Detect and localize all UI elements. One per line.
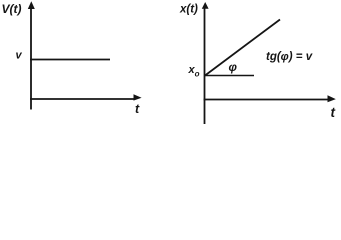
svg-text:tg(φ) = v: tg(φ) = v bbox=[266, 51, 313, 63]
svg-text:x(t): x(t) bbox=[179, 4, 198, 16]
svg-text:v: v bbox=[16, 50, 23, 62]
svg-text:V(t): V(t) bbox=[2, 2, 22, 16]
svg-text:xo: xo bbox=[188, 64, 200, 79]
svg-text:φ: φ bbox=[229, 60, 238, 74]
svg-text:t: t bbox=[331, 105, 336, 120]
svg-text:t: t bbox=[135, 102, 140, 116]
